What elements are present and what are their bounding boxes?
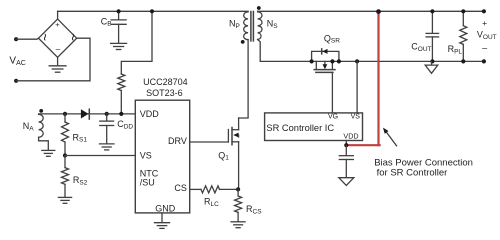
node: startup bottom dot xyxy=(119,112,123,116)
transformer: primary winding NP xyxy=(244,12,248,40)
svg-text:RPL: RPL xyxy=(448,44,463,55)
wire: QSR gate lead to VG xyxy=(331,72,333,113)
svg-text:CDD: CDD xyxy=(117,119,133,130)
capacitor CB xyxy=(111,11,127,49)
node: QSR source dot xyxy=(337,59,341,63)
svg-text:GND: GND xyxy=(155,203,176,213)
wire: VAC bottom lead xyxy=(16,38,90,81)
wire: IC GND stub xyxy=(161,213,163,223)
op-amp U2 SR Controller box xyxy=(265,113,363,141)
svg-text:CS: CS xyxy=(174,183,187,193)
ground: NA xyxy=(42,150,55,156)
resistor RCS xyxy=(235,189,242,221)
ground: bridge xyxy=(49,57,66,72)
svg-text:–: – xyxy=(56,44,61,53)
label bridge ac right xyxy=(65,33,80,41)
wire: CS lead xyxy=(190,188,201,190)
svg-text:VG: VG xyxy=(328,113,338,120)
resistor RPL xyxy=(460,11,467,61)
wire: bridge top stub xyxy=(57,11,59,19)
svg-text:+: + xyxy=(482,18,487,28)
diode D1 xyxy=(81,109,89,119)
node: SR VDD dot xyxy=(344,143,348,147)
node: COUT bottom dot xyxy=(430,59,434,63)
wire: bias power connection (red) xyxy=(347,12,380,145)
node: QSR source stub dot xyxy=(330,59,334,63)
svg-text:RS2: RS2 xyxy=(73,175,88,186)
label bridge ac left xyxy=(37,33,52,41)
resistor RS1 xyxy=(62,114,69,156)
node: VS divider junction dot xyxy=(63,153,67,157)
resistor RLC xyxy=(201,186,220,193)
svg-text:VDD: VDD xyxy=(140,109,160,119)
svg-text:VS: VS xyxy=(140,151,152,161)
winding NA xyxy=(39,114,49,150)
ground: IC xyxy=(155,223,170,229)
node: VS tap dot xyxy=(355,59,359,63)
svg-text:DRV: DRV xyxy=(168,136,187,146)
svg-text:NA: NA xyxy=(23,121,35,132)
node: NP polarity dot xyxy=(241,40,245,44)
node: CS node dot xyxy=(236,187,240,191)
node: RPL bottom dot xyxy=(461,59,465,63)
source VAC terminal dots xyxy=(14,37,18,83)
svg-text:+: + xyxy=(55,20,60,29)
wire: VAC top lead xyxy=(16,38,38,39)
node: CB tap dot xyxy=(117,9,121,13)
wire: RLC to CS node xyxy=(220,188,239,190)
ground: output (triangle) xyxy=(425,61,438,73)
capacitor CDD xyxy=(100,114,114,143)
node: RS1 top dot xyxy=(63,112,67,116)
ground: CDD xyxy=(100,144,114,150)
diode: QSR body diode xyxy=(322,49,328,54)
wire: SR VDD stub xyxy=(345,141,347,146)
bridge rectifier diamond xyxy=(39,19,77,57)
node: CDD tap dot xyxy=(105,112,109,116)
node: bias tap dot xyxy=(376,9,381,14)
node: RPL top dot xyxy=(461,9,465,13)
svg-text:QSR: QSR xyxy=(324,33,340,44)
wire: DRV gate lead xyxy=(190,141,229,143)
capacitor COUT xyxy=(426,11,439,61)
resistor RS2 xyxy=(62,156,69,198)
ground: RS2 xyxy=(58,197,71,203)
ground: RCS xyxy=(231,222,245,228)
wire: primary top rail xyxy=(58,10,249,12)
wire: Q1 source xyxy=(238,142,240,190)
svg-text:CB: CB xyxy=(101,16,112,27)
svg-text:UCC28704: UCC28704 xyxy=(143,77,188,87)
svg-text:VDD: VDD xyxy=(343,131,358,140)
wire: VDD rail (NA to IC) xyxy=(39,113,136,115)
node: QSR drain dot xyxy=(310,59,314,63)
svg-text:–: – xyxy=(482,43,487,53)
ground: SR VDD (triangle) xyxy=(339,178,354,186)
wire: secondary bottom rail xyxy=(260,60,484,62)
svg-text:VS: VS xyxy=(351,113,361,120)
op-amp U1 UCC28704 box xyxy=(135,100,189,213)
svg-text:for SR Controller: for SR Controller xyxy=(377,168,448,179)
svg-text:NP: NP xyxy=(229,19,240,30)
resistor: startup (unlabeled) xyxy=(118,11,152,114)
svg-text:Q1: Q1 xyxy=(218,150,229,161)
transformer: secondary winding NS xyxy=(258,12,262,40)
node: NS polarity dot xyxy=(257,6,261,10)
node: startup tap dot xyxy=(150,9,154,13)
svg-text:~: ~ xyxy=(65,33,80,41)
annotation arrow xyxy=(383,128,397,146)
node: COUT top dot xyxy=(430,9,434,13)
wire: secondary top rail xyxy=(258,10,484,12)
wire: Q1 drain to transformer xyxy=(238,118,240,130)
wire: NS bottom lead xyxy=(258,40,261,62)
node: VOUT- terminal xyxy=(482,59,486,63)
transformer: core xyxy=(251,12,254,41)
capacitor: SR VDD bypass xyxy=(339,145,353,177)
node: NA polarity dot xyxy=(39,109,43,113)
node: VOUT+ terminal xyxy=(482,9,486,13)
svg-text:RS1: RS1 xyxy=(73,132,88,143)
transistor QSR channel xyxy=(314,61,335,72)
svg-text:SOT23-6: SOT23-6 xyxy=(146,88,183,98)
transistor Q1 xyxy=(228,128,238,145)
wire: VS sense xyxy=(65,155,135,157)
svg-text:RCS: RCS xyxy=(246,204,262,215)
svg-text:NS: NS xyxy=(267,19,279,30)
svg-text:VAC: VAC xyxy=(9,56,25,67)
wire: VS tap to SR controller xyxy=(356,61,358,113)
svg-text:~: ~ xyxy=(37,33,52,41)
svg-text:RLC: RLC xyxy=(204,197,219,208)
transistor QSR body-diode loop xyxy=(312,51,339,61)
svg-text:/SU: /SU xyxy=(140,177,155,187)
svg-text:VOUT: VOUT xyxy=(477,30,497,41)
svg-text:SR Controller IC: SR Controller IC xyxy=(266,123,334,133)
svg-text:COUT: COUT xyxy=(411,42,431,53)
